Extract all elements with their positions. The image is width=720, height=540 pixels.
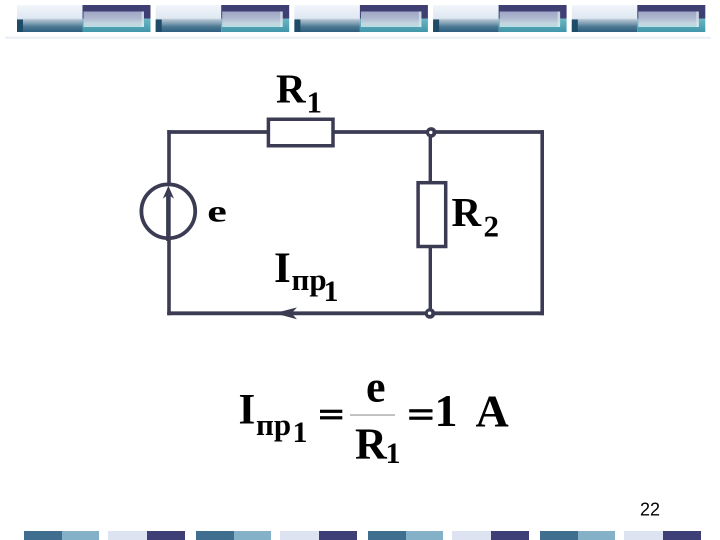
wire: left side xyxy=(167,130,171,315)
current arrow I_pr1 on bottom wire xyxy=(275,307,298,319)
svg-text:1: 1 xyxy=(307,85,323,120)
svg-text:1: 1 xyxy=(435,385,458,436)
formula equals 2 xyxy=(409,409,432,420)
svg-text:2: 2 xyxy=(484,208,500,243)
svg-text:1: 1 xyxy=(386,437,401,470)
resistor R1 xyxy=(268,119,333,146)
footer decoration xyxy=(24,531,701,540)
wire: bottom side xyxy=(167,311,544,315)
formula fraction bar xyxy=(350,414,395,416)
svg-text:I: I xyxy=(274,245,291,292)
node: top junction xyxy=(426,127,437,138)
formula equals 1 xyxy=(320,410,342,420)
svg-text:e: e xyxy=(366,363,386,412)
wire: right side xyxy=(540,130,544,315)
svg-text:1: 1 xyxy=(324,275,339,308)
formula: I_pr1 = e / R1 = 1 A xyxy=(239,363,509,471)
svg-text:R: R xyxy=(355,419,388,468)
svg-text:R: R xyxy=(276,65,306,111)
svg-text:1: 1 xyxy=(293,416,308,449)
node: bottom junction xyxy=(425,308,436,319)
wire: middle branch xyxy=(429,132,432,313)
svg-text:пр: пр xyxy=(292,262,327,297)
wire: top side xyxy=(167,130,544,134)
svg-text:A: A xyxy=(476,386,509,437)
svg-text:I: I xyxy=(239,387,256,434)
svg-text:22: 22 xyxy=(640,500,660,520)
header decoration xyxy=(5,5,711,39)
svg-text:R: R xyxy=(452,189,482,235)
label I_pr1 (loop current) xyxy=(274,245,339,308)
svg-text:пр: пр xyxy=(256,407,291,442)
voltage source arrow (points up) xyxy=(163,186,174,241)
resistor R2 xyxy=(418,183,446,247)
svg-text:e: e xyxy=(207,195,227,229)
voltage source e: circle xyxy=(141,184,195,238)
